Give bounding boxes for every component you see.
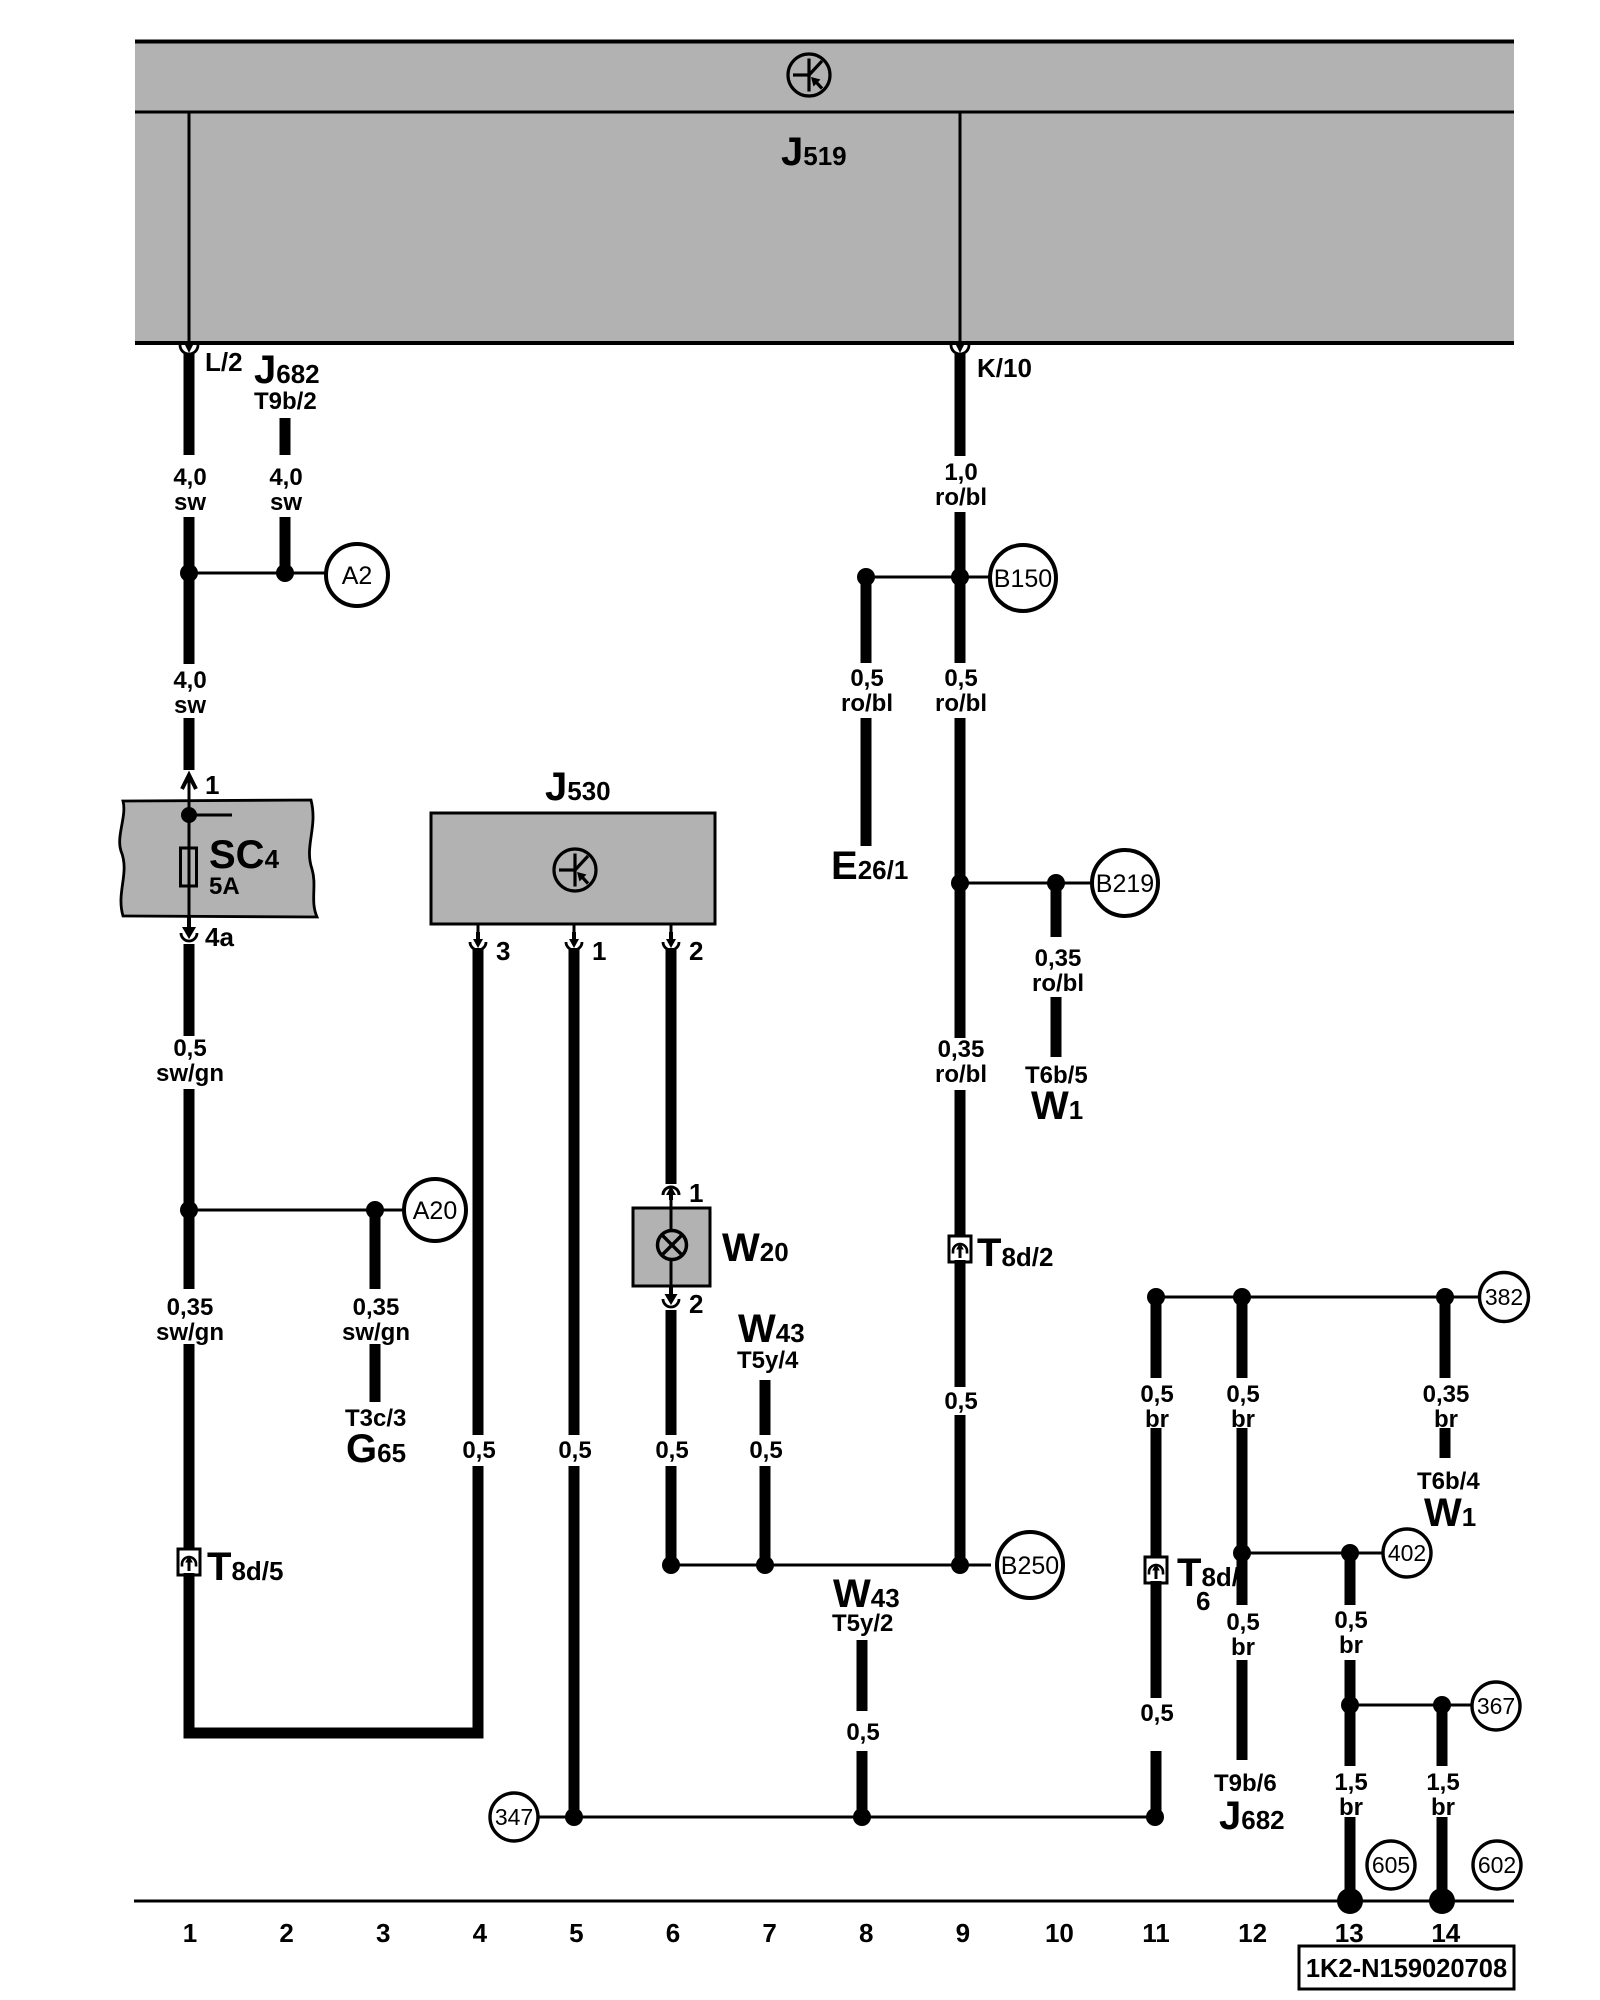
svg-text:1K2-N159020708: 1K2-N159020708 (1306, 1955, 1507, 1983)
svg-text:3: 3 (376, 1918, 390, 1948)
junction dot main wire at B250 junction (951, 1556, 969, 1574)
svg-text:5: 5 (569, 1918, 583, 1948)
W20 pin 2 lead (670, 1286, 673, 1293)
wire 0,5 br col12 lower (1237, 1548, 1248, 1605)
connection circle A20 (404, 1179, 466, 1241)
wire col12 to 402 node (1237, 1428, 1248, 1558)
svg-text:K/10: K/10 (977, 353, 1032, 383)
svg-text:ro/bl: ro/bl (841, 690, 893, 717)
svg-text:A2: A2 (342, 562, 373, 590)
wire col11 below T8d/6 (1151, 1581, 1162, 1698)
pin K/10 exit socket (951, 345, 969, 354)
wire through W20 box (670, 1208, 673, 1286)
wire col12 stub end (1237, 1660, 1248, 1760)
svg-text:382: 382 (1485, 1284, 1523, 1310)
wire to connection A20 (189, 1209, 404, 1212)
fuse pin 1 arrow (182, 775, 196, 789)
svg-text:sw/gn: sw/gn (156, 1060, 224, 1087)
wire inside J519 to pin K/10 (959, 112, 962, 341)
wire 1,5 br col14 (1437, 1705, 1448, 1766)
junction dot col13 at 367 line (1341, 1696, 1359, 1714)
track numbers 1-14 (183, 1918, 1461, 1948)
junction dot col12 at 402 line (1233, 1544, 1251, 1562)
svg-text:T5y/2: T5y/2 (832, 1610, 893, 1637)
svg-text:0,5: 0,5 (558, 1437, 591, 1464)
wire 0,5 from J530 pin 1 (569, 948, 580, 1435)
svg-text:1: 1 (205, 770, 219, 800)
wire 0,35 sw/gn to G65 (370, 1210, 381, 1289)
wire to connection B219 (960, 882, 1092, 885)
tap line inside SC4 (189, 814, 232, 817)
svg-text:7: 7 (762, 1918, 776, 1948)
J530 pin 3 socket (470, 924, 486, 950)
svg-text:347: 347 (495, 1804, 533, 1830)
junction dot col11 at 347 line (1146, 1808, 1164, 1826)
wire main to B250 line (955, 1415, 966, 1570)
ground terminal dot col13 (1337, 1888, 1363, 1914)
wire col11 to 347 line (1151, 1751, 1162, 1817)
wire stub from W43 T5y/4 (760, 1380, 771, 1435)
wire 0,5 sw/gn to node A20 (184, 1089, 195, 1215)
connection circle 347 (490, 1793, 538, 1841)
svg-text:10: 10 (1045, 1918, 1074, 1948)
svg-text:1: 1 (183, 1918, 197, 1948)
bottom rail line (134, 1900, 1514, 1903)
svg-text:A20: A20 (413, 1197, 457, 1225)
connection circle A2 (326, 544, 388, 606)
svg-text:0,35: 0,35 (1423, 1381, 1470, 1408)
svg-text:12: 12 (1238, 1918, 1267, 1948)
wire 0,35 ro/bl below B219 (955, 878, 966, 1038)
svg-text:sw/gn: sw/gn (156, 1319, 224, 1346)
wire 0,5 from J530 pin 2 (666, 948, 677, 1184)
wire inside J519 to pin L/2 (188, 112, 191, 341)
svg-text:0,5: 0,5 (173, 1035, 206, 1062)
svg-text:L/2: L/2 (205, 347, 243, 377)
junction dot G65 wire at A20 line (366, 1201, 384, 1219)
wire to connection 367 (1350, 1704, 1473, 1707)
svg-text:sw: sw (174, 692, 206, 719)
wire 0,35 br to W1 T6b/4 (1440, 1297, 1451, 1378)
W20 pin 1 entry socket (663, 1186, 679, 1208)
J530 pin 1 socket (566, 924, 582, 950)
junction dot J682 wire at A2 line (276, 564, 294, 582)
svg-text:T9b/2: T9b/2 (254, 388, 317, 415)
connection circle B150 (990, 545, 1056, 611)
fuse pin 4a arrow and cup (182, 916, 196, 939)
wire pin 3 to bottom bend (473, 1466, 484, 1733)
svg-text:6: 6 (666, 1918, 680, 1948)
junction dot inside SC4 (181, 807, 197, 823)
svg-text:6: 6 (1196, 1586, 1210, 1616)
wire 1,5 br col13 (1345, 1700, 1356, 1766)
control unit J530 box (431, 813, 715, 924)
control unit J519 box (onboard supply control unit) (135, 40, 1514, 343)
connection circle B219 (1092, 850, 1158, 916)
connection circle 382 (1480, 1273, 1529, 1322)
svg-text:br: br (1231, 1634, 1255, 1661)
wire W43 stub to B250 line (760, 1466, 771, 1570)
wire stub end T6b/4 (1440, 1428, 1451, 1458)
svg-text:0,5: 0,5 (749, 1437, 782, 1464)
wire stub end T6b/5 (1051, 997, 1062, 1057)
svg-text:0,5: 0,5 (462, 1437, 495, 1464)
svg-text:2: 2 (689, 936, 703, 966)
wire 0,5 br col13 upper (1345, 1553, 1356, 1605)
svg-text:602: 602 (1478, 1852, 1516, 1878)
control-unit symbol inside J530 (554, 849, 596, 891)
wire to connection 382 (1156, 1296, 1480, 1299)
svg-text:2: 2 (279, 1918, 293, 1948)
svg-text:0,5: 0,5 (944, 1388, 977, 1415)
svg-text:0,35: 0,35 (167, 1294, 214, 1321)
svg-text:T9b/6: T9b/6 (1214, 1770, 1277, 1797)
connector T8d/5 symbol (178, 1549, 200, 1575)
svg-text:1: 1 (689, 1178, 703, 1208)
wire 0,35 ro/bl to connector T8d/2 (955, 1090, 966, 1238)
svg-text:367: 367 (1477, 1693, 1515, 1719)
junction dot B219 stub top (1047, 874, 1065, 892)
wire 0,35 sw/gn below A20 node (184, 1205, 195, 1289)
connection circle 367 (1472, 1682, 1520, 1730)
svg-text:0,5: 0,5 (1334, 1607, 1367, 1634)
svg-text:0,35: 0,35 (938, 1036, 985, 1063)
lamp symbol W20 (658, 1231, 687, 1260)
svg-text:13: 13 (1335, 1918, 1364, 1948)
svg-text:4,0: 4,0 (269, 464, 302, 491)
svg-text:T5y/4: T5y/4 (737, 1347, 799, 1374)
junction dot main wire at B150 line (951, 568, 969, 586)
connection circle 602 (1473, 1841, 1521, 1889)
wire to connection B150 (866, 576, 991, 579)
svg-text:0,35: 0,35 (1035, 945, 1082, 972)
W20 pin 2 arrow and cup (665, 1286, 678, 1305)
wire 0,5 ro/bl to node B219 (955, 718, 966, 888)
svg-text:1,5: 1,5 (1426, 1769, 1459, 1796)
connector T8d/2 symbol (949, 1236, 971, 1262)
svg-text:8: 8 (859, 1918, 873, 1948)
wire 0,5 ro/bl to E26/1 (861, 577, 872, 663)
junction dot col12 at 382 line (1233, 1288, 1251, 1306)
junction dot W43 wire at B250 line (756, 1556, 774, 1574)
svg-text:B219: B219 (1096, 870, 1154, 898)
wire 1,0 ro/bl to node B150 (955, 512, 966, 582)
junction dot on left wire at A2 line (180, 564, 198, 582)
wire to connection B250 (671, 1564, 991, 1567)
svg-text:2: 2 (689, 1289, 703, 1319)
wire 0,5 ro/bl below B150 (955, 572, 966, 663)
wire 4,0 sw from J682 to node A2 (280, 517, 291, 567)
connection circle B250 (997, 1532, 1063, 1598)
svg-text:402: 402 (1388, 1540, 1426, 1566)
wire stub end E26/1 (861, 718, 872, 846)
svg-text:ro/bl: ro/bl (935, 690, 987, 717)
svg-text:sw: sw (174, 489, 206, 516)
junction dot left wire at A20 line (180, 1201, 198, 1219)
wire col13 to 367 node (1345, 1660, 1356, 1710)
svg-text:ro/bl: ro/bl (935, 1061, 987, 1088)
wire below W20 to B250 line (666, 1466, 677, 1570)
wire 0,5 br col11 upper (1151, 1297, 1162, 1378)
diagram number box (1299, 1946, 1514, 1989)
svg-text:5A: 5A (209, 873, 240, 900)
svg-text:B150: B150 (994, 565, 1052, 593)
wire 1,0 ro/bl from J519 K/10 (955, 353, 966, 456)
svg-text:4a: 4a (205, 922, 234, 952)
control-unit symbol inside J519 (788, 54, 830, 96)
wire stub end G65 (370, 1344, 381, 1402)
wire col14 to ground line (1437, 1817, 1448, 1901)
junction dot col11 at 382 line (1147, 1288, 1165, 1306)
pin L/2 exit socket (180, 345, 198, 354)
connection circle 605 (1367, 1841, 1415, 1889)
svg-text:1: 1 (592, 936, 606, 966)
svg-text:0,5: 0,5 (944, 665, 977, 692)
junction dot E26/1 wire top (857, 568, 875, 586)
connection circle 402 (1383, 1529, 1431, 1577)
svg-text:605: 605 (1372, 1852, 1410, 1878)
svg-text:B250: B250 (1001, 1552, 1059, 1580)
wire below T8d/2 (955, 1260, 966, 1387)
svg-text:4,0: 4,0 (173, 464, 206, 491)
svg-text:11: 11 (1142, 1918, 1170, 1948)
svg-text:br: br (1431, 1794, 1455, 1821)
wire pin 1 to node 347 (569, 1466, 580, 1817)
svg-text:0,35: 0,35 (353, 1294, 400, 1321)
wire 4,0 sw from A2 node to fuse SC4 (184, 568, 195, 664)
wire 0,5 br col12 upper (1237, 1297, 1248, 1378)
fuse pin 4a lead (188, 916, 191, 934)
wire 0,5 sw/gn below SC4 (184, 944, 195, 1036)
svg-text:ro/bl: ro/bl (1032, 970, 1084, 997)
wire 0,35 sw/gn to connector T8d/5 (184, 1344, 195, 1551)
svg-text:14: 14 (1431, 1918, 1460, 1948)
svg-text:0,5: 0,5 (846, 1719, 879, 1746)
svg-text:sw: sw (270, 489, 302, 516)
wire 4,0 sw from J519 L/2 (184, 353, 195, 455)
svg-text:3: 3 (496, 936, 510, 966)
svg-text:4,0: 4,0 (173, 667, 206, 694)
svg-text:1,5: 1,5 (1334, 1769, 1367, 1796)
svg-text:0,5: 0,5 (850, 665, 883, 692)
fuse panel SC4 (torn box) (120, 800, 317, 917)
wire through SC4 (188, 800, 191, 916)
svg-text:1,0: 1,0 (944, 459, 977, 486)
lamp W20 box (633, 1208, 710, 1286)
fuse symbol SC4 (181, 848, 197, 886)
bottom horizontal wire run (184, 1728, 484, 1739)
svg-text:9: 9 (956, 1918, 970, 1948)
wire col13 to ground line (1345, 1817, 1356, 1901)
svg-text:0,5: 0,5 (1140, 1700, 1173, 1727)
svg-text:0,5: 0,5 (1226, 1609, 1259, 1636)
junction dot pin1 wire at 347 line (565, 1808, 583, 1826)
svg-text:0,5: 0,5 (655, 1437, 688, 1464)
wire 4,0 sw continues to node A2 (184, 517, 195, 578)
svg-text:br: br (1339, 1794, 1363, 1821)
wire to connection 402 (1242, 1552, 1384, 1555)
wire 0,35 ro/bl from B219 node (1051, 883, 1062, 937)
wire W43 T5y/2 to 347 line (857, 1751, 868, 1817)
svg-text:0,5: 0,5 (1226, 1381, 1259, 1408)
connector T8d/6 symbol (1145, 1557, 1167, 1583)
junction dot W43 T5y/2 at 347 line (853, 1808, 871, 1826)
wire col11 to T8d/6 (1151, 1428, 1162, 1559)
wire to connection A2 (189, 572, 326, 575)
wire up from bend to J530 pin 3 run (473, 1728, 484, 1733)
svg-text:br: br (1339, 1632, 1363, 1659)
ground terminal dot col14 (1429, 1888, 1455, 1914)
wire 0,5 from J530 pin 3 (473, 948, 484, 1435)
junction dot main wire at B219 line (951, 874, 969, 892)
wire from connection 347 (538, 1816, 1155, 1819)
wire into fuse pin 1 (184, 718, 195, 770)
junction dot W1 stub at 382 line (1436, 1288, 1454, 1306)
J530 pin 2 socket (663, 924, 679, 950)
junction dot col13 at 402 line (1341, 1544, 1359, 1562)
svg-text:0,5: 0,5 (1140, 1381, 1173, 1408)
wire stub from J682 T9b/2 (280, 418, 291, 455)
junction dot W20 wire at B250 line (662, 1556, 680, 1574)
wire from T8d/5 down to bottom bend (184, 1573, 195, 1733)
junction dot col14 at 367 line (1433, 1696, 1451, 1714)
wire stub from W43 T5y/2 (857, 1640, 868, 1711)
wire 0,5 below W20 (666, 1310, 677, 1435)
svg-text:ro/bl: ro/bl (935, 484, 987, 511)
svg-text:4: 4 (473, 1918, 488, 1948)
svg-text:sw/gn: sw/gn (342, 1319, 410, 1346)
